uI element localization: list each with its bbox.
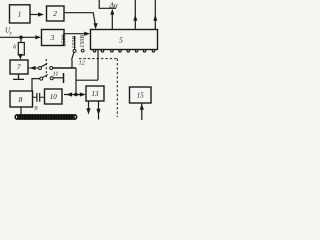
wire top bar and exit	[99, 0, 116, 8]
wire into box7 right	[28, 67, 38, 69]
capacitor 9	[33, 96, 45, 98]
terminal t3	[111, 50, 114, 53]
wire box2 to box5 top	[64, 13, 95, 25]
arrow into box5 top	[94, 23, 98, 29]
svg-text:8: 8	[19, 95, 23, 104]
wire junction down to resistor	[20, 37, 22, 42]
wire Uy input	[0, 36, 35, 38]
box 15	[130, 87, 152, 103]
pole2 contact left	[40, 77, 43, 80]
svg-text:15: 15	[137, 92, 145, 100]
arrow down box13 a	[86, 108, 90, 114]
switch 11 contact right	[50, 67, 53, 70]
wire V2 from box5	[97, 50, 99, 81]
svg-text:150В: 150В	[72, 36, 78, 49]
svg-text:10: 10	[50, 93, 58, 101]
wire box13 arrow 1	[88, 101, 90, 111]
dashed line from switch12	[79, 58, 117, 60]
wire V1 down	[75, 68, 77, 95]
pole2 contact right	[50, 77, 53, 80]
wire box8 down	[20, 107, 22, 115]
box 1	[10, 5, 31, 23]
svg-text:11: 11	[53, 71, 59, 77]
svg-text:12: 12	[79, 60, 85, 66]
arrow up output B	[153, 15, 157, 21]
arrow up box15	[140, 104, 144, 110]
switch 11 blade	[41, 63, 47, 67]
terminal t7	[143, 50, 146, 53]
ground under box7	[13, 74, 24, 79]
arrow into box3	[35, 35, 41, 39]
arrow into box7 top	[18, 54, 22, 60]
svg-text:150В: 150В	[80, 35, 86, 48]
arrow into box13	[80, 92, 86, 96]
wire box13 arrow 2	[98, 101, 100, 120]
wire into box15 from bottom	[141, 103, 143, 120]
box 13	[86, 86, 104, 101]
wire H1 switch11 to V1	[53, 67, 76, 69]
switch 11 contact left	[39, 67, 42, 70]
terminal t2	[101, 50, 104, 53]
terminal t5	[127, 50, 130, 53]
arrow up delta-u	[110, 9, 114, 15]
wire tap drop 2	[74, 36, 76, 49]
svg-text:1: 1	[18, 10, 22, 19]
svg-text:Δu: Δu	[109, 1, 118, 10]
pole2 wire left	[32, 79, 40, 91]
wire delta-u output	[111, 12, 113, 30]
box 8	[10, 91, 33, 107]
arrow into box5 left	[84, 32, 90, 36]
gang dashed link	[45, 59, 47, 78]
switch 12 blade	[72, 52, 74, 59]
texts	[5, 1, 144, 112]
arrow into box10	[66, 92, 72, 96]
resistor 6	[18, 43, 24, 56]
wire H2	[76, 79, 98, 81]
wire tap drop (150V)	[63, 34, 65, 45]
switch 12 contact b	[81, 49, 84, 52]
terminal t1	[93, 50, 96, 53]
dashed vertical right	[116, 59, 118, 117]
terminal t6	[135, 50, 138, 53]
wire output arrow A	[134, 0, 136, 30]
arrow into box2	[38, 12, 44, 16]
svg-text:2: 2	[53, 9, 57, 18]
arrow down box13 b	[96, 109, 100, 115]
terminal t4	[119, 50, 122, 53]
pole2 blade	[43, 75, 48, 78]
switch 12 contact a	[73, 49, 76, 52]
svg-text:13: 13	[92, 90, 100, 98]
pole2 wire right to plate	[53, 77, 63, 79]
wire box3 to box5	[64, 33, 85, 35]
arrow into box7 right	[30, 66, 36, 70]
svg-text:3: 3	[50, 33, 55, 42]
box 10	[45, 89, 63, 104]
chain bottom	[15, 115, 77, 119]
arrow up output A	[133, 15, 137, 21]
terminal t8	[152, 50, 155, 53]
box 5	[91, 30, 158, 50]
wire box10 box13	[64, 94, 84, 96]
svg-text:6: 6	[13, 45, 16, 51]
svg-text:1500: 1500	[61, 35, 67, 47]
wire box1 to box2	[30, 14, 39, 16]
svg-text:7: 7	[17, 63, 21, 72]
svg-text:5: 5	[119, 35, 123, 44]
box5 terminals	[93, 50, 155, 53]
box 2	[47, 6, 65, 21]
wire output arrow B	[154, 0, 156, 30]
plate bar	[63, 73, 65, 83]
arrowheads	[18, 9, 157, 115]
box 3	[42, 30, 65, 46]
wire blade down	[71, 60, 73, 68]
junction dot Uy	[19, 36, 23, 40]
box 7	[10, 60, 28, 74]
wire resistor to box7	[20, 54, 22, 57]
junction dot wire	[74, 93, 78, 97]
